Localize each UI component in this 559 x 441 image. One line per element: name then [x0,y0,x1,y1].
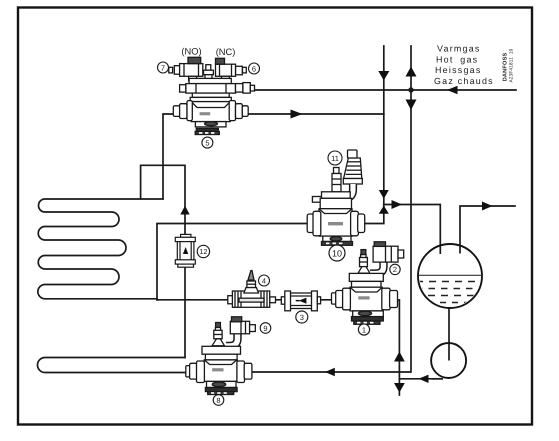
node label circle 10 [329,245,345,261]
top plate + bonnet [202,346,241,354]
filter 3 [281,291,320,311]
arrows [180,67,492,393]
node label circle 8 [213,395,224,406]
top plate + bonnet [322,192,351,199]
node label circle 11 [328,151,342,165]
wire evaporator coil serpentine [38,199,163,300]
svg-text:(NO): (NO) [181,47,201,57]
node label circle 6 [249,63,260,74]
arrow down on pump riser bottom [394,383,405,393]
stem [216,323,221,328]
svg-text:Hot gas: Hot gas [436,54,478,64]
stem [334,168,340,174]
svg-text:Gaz chauds: Gaz chauds [434,76,494,86]
left flange [186,366,190,377]
wire pump discharge line [399,378,441,380]
wire valve10 left port line [157,224,307,300]
body [191,102,230,122]
right flange [382,288,390,310]
right flange [237,361,245,383]
arrow down on riser1 top [378,71,389,81]
bottom cap [207,381,237,387]
stem [361,250,366,255]
node label circle 1 [358,324,369,335]
node label circle 7 [158,62,169,73]
wire drip tray pipe hairpin [38,358,192,373]
pilot manifold [189,78,231,83]
bottom cap [195,122,226,127]
arrow down on riser1 above J1 [379,190,389,199]
svg-text:5: 5 [205,138,209,147]
arrow up on valve10 branch [379,206,389,214]
arrow right on valve5 outlet line [291,110,303,119]
node label circle 5 [202,137,213,148]
pilot CVP cone [344,158,362,179]
svg-text:4: 4 [262,276,266,285]
svg-text:12: 12 [199,247,207,256]
bottom cap [353,311,384,317]
arrow left on drip feed line [325,368,335,376]
solenoid pilot elbow [226,333,238,346]
svg-text:8: 8 [216,396,220,405]
svg-text:1: 1 [362,325,366,334]
receiver vessel [416,244,484,309]
solenoid coil box [230,321,249,334]
body [204,360,237,382]
svg-text:7: 7 [161,63,165,72]
valve 5 assembly (3-way PMLX with two solenoid pilots) [169,57,255,134]
arrow up on riser2 [406,67,417,77]
svg-text:6: 6 [252,64,256,73]
wire receiver to pump [448,308,450,361]
svg-text:A23F41811 19: A23F41811 19 [509,49,515,83]
node label circle 12 [197,245,209,257]
node label circle 4 [259,275,270,286]
arrow down on riser2 [406,100,417,111]
wire J1 branch to receiver [384,205,441,254]
label DANFOSS vertical [502,49,514,83]
solenoid pilot elbow [370,260,384,274]
pump circle [431,343,466,378]
body [350,287,382,311]
arrow up on pump riser [394,352,405,362]
wire valve1 right port to pump riser corner [391,300,399,395]
left flange [173,106,180,117]
wire check valve riser and step to coil inlet [141,165,185,357]
left flange [332,293,337,304]
adapter + bonnet [192,93,229,97]
wire riser 2 (x=411) from top to bottom corner [248,46,412,372]
right pilot fitting [236,84,243,93]
top plate + bonnet [349,273,383,281]
center stem [206,65,211,71]
valve 10 (PM with CVP pilot 11) [307,150,365,245]
svg-text:3: 3 [300,313,304,322]
arrow right on J1 branch [392,200,403,209]
svg-text:11: 11 [331,154,339,163]
receiver inlet pipes inside [439,246,441,254]
wire valve10 right port riser to J1 [365,205,384,224]
wire receiver outlet to top right [460,206,515,253]
solenoid coil box [373,246,398,262]
arrow left on pump discharge [419,375,429,383]
check valve 12 [175,234,195,267]
right flange [229,101,235,121]
arrow right on receiver outlet [482,202,493,211]
svg-text:(NC): (NC) [216,47,236,57]
svg-text:DANFOSS: DANFOSS [502,52,508,81]
solenoid NC coil [243,67,247,73]
left flange [307,214,313,233]
junction dot hot gas tee [408,87,413,92]
valve 4 TEA injection valve [228,271,276,308]
arrow left on hot gas line [447,86,458,94]
left nipple [312,197,321,203]
node label circle 2 [390,264,400,274]
wire hot gas main line y=90 [253,89,516,91]
right flange [351,211,359,236]
solenoid NO coil [169,67,173,73]
valve 1 (PM with solenoid pilot 2) [332,242,404,324]
wire valve5 right port to riser1 y=114 [241,113,384,115]
bottom cap [323,236,351,241]
svg-text:Heissgas: Heissgas [435,65,482,75]
wire riser 1 (x=383.8) from top to junction J1 [383,46,385,205]
node label circle 9 [260,323,271,334]
svg-text:10: 10 [332,249,342,259]
svg-text:9: 9 [263,324,267,333]
body [319,209,352,236]
svg-text:2: 2 [393,265,397,274]
label Varmgas / Hot gas / Heissgas / Gaz chauds [434,44,494,86]
wire valve5 left port down to coil inlet [163,114,178,199]
valve 8 (PM with solenoid pilot 9) [186,317,256,395]
arrow up on check valve riser [180,206,189,215]
svg-text:Varmgas: Varmgas [437,44,481,54]
node label circle 3 [296,311,308,323]
wire liquid line y=300 [157,299,391,301]
